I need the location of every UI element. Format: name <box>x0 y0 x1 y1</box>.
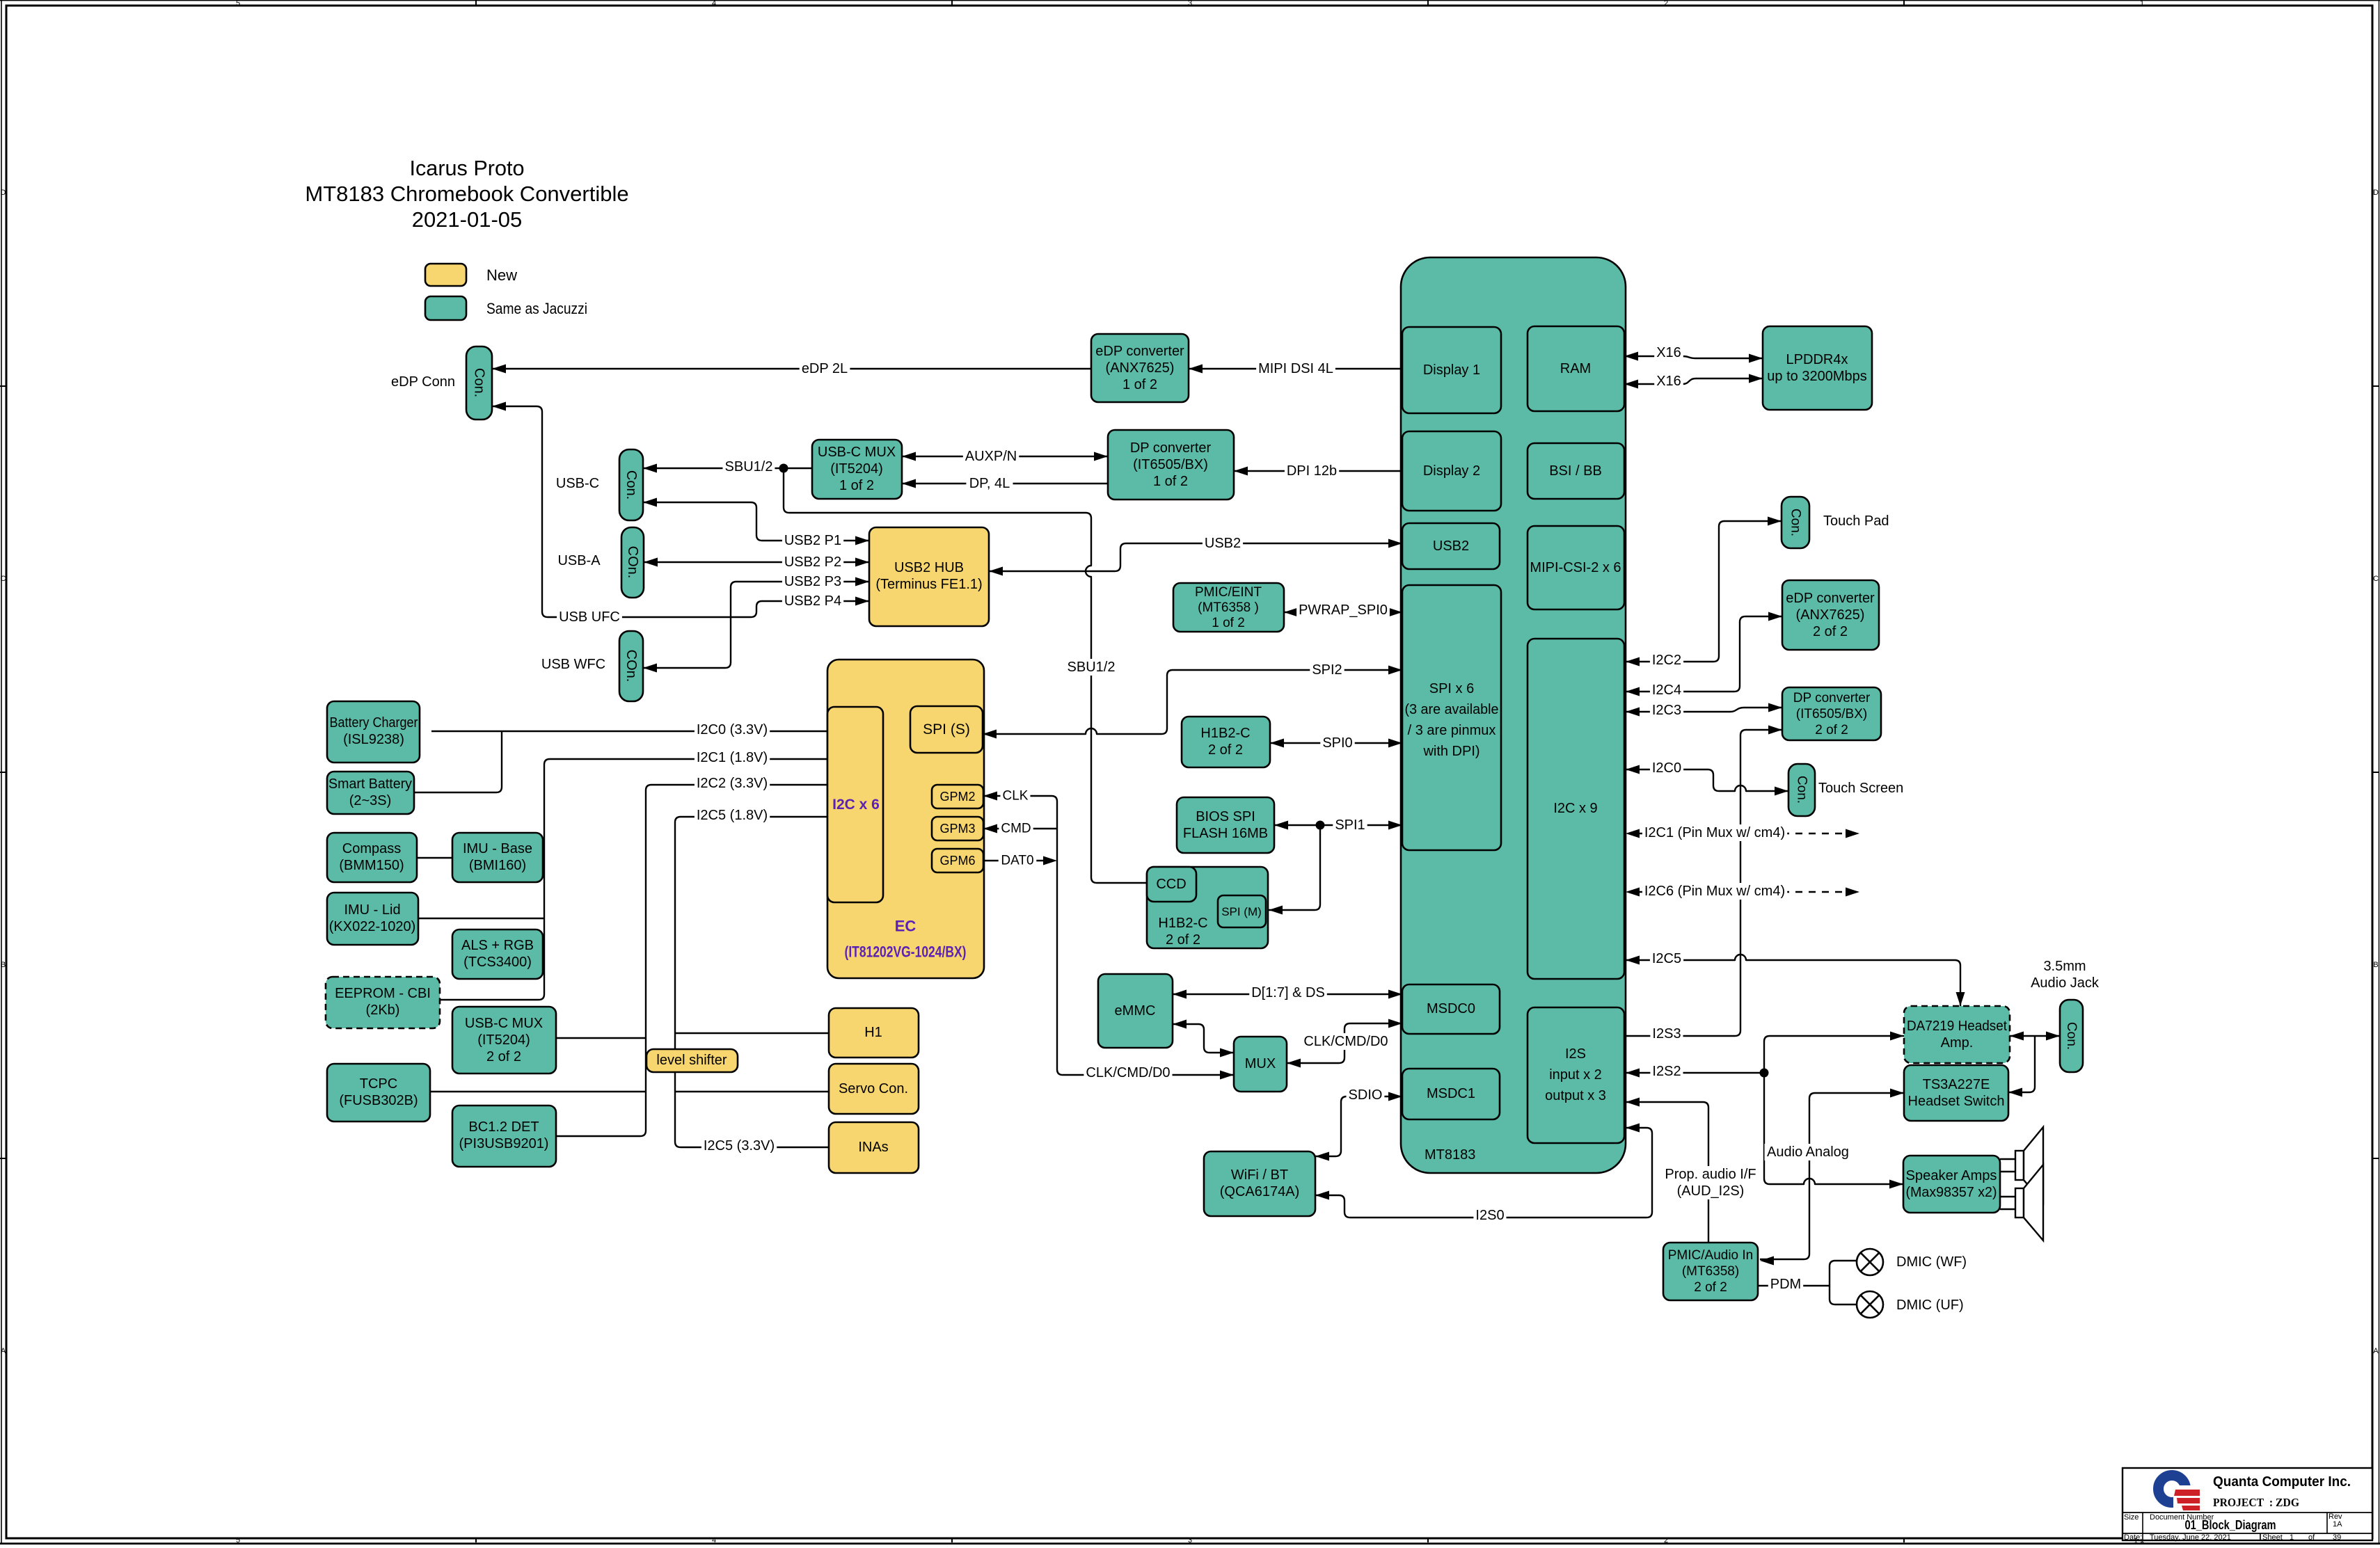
sheet outer left edge line <box>1 0 2 1545</box>
wire USB UFC / USB2 P4 <box>492 406 869 617</box>
svg-text:SBU1/2: SBU1/2 <box>1068 660 1116 675</box>
block EC GPM6 port <box>932 849 983 872</box>
arrowhead into MT8183 USB2 <box>1388 539 1402 548</box>
junction dot SBU1/2 <box>779 464 788 473</box>
net label D[1:7] & DS <box>1249 984 1327 1001</box>
speaker icon lower horn <box>2024 1165 2043 1240</box>
svg-text:USB UFC: USB UFC <box>559 609 620 625</box>
net label I2C6 (Pin Mux w/ cm4) <box>1642 883 1787 900</box>
wire SPI0 <box>1270 742 1402 744</box>
svg-text:USB2 P1: USB2 P1 <box>784 533 841 548</box>
block PMIC/EINT (MT6358) 1 of 2 <box>1173 583 1284 632</box>
arrowhead into eDP converter 1 of 2 (MIPI DSI 4L) <box>1189 365 1203 374</box>
frame bottom zone tick at x=1368 <box>951 1538 953 1542</box>
wire SPI2 / EC SPI(S) <box>983 670 1402 734</box>
block INAs <box>829 1122 919 1173</box>
wire CMD from GPM3 <box>983 828 1057 829</box>
svg-text:CLK/CMD/D0: CLK/CMD/D0 <box>1086 1065 1170 1080</box>
svg-text:SPI1: SPI1 <box>1335 817 1365 833</box>
frame bottom zone tick at x=684 <box>475 1538 477 1542</box>
arrowhead into RAM (X16 lower) <box>1624 380 1638 389</box>
wire DAT0 from GPM6 <box>983 860 1052 861</box>
wire SDIO <box>1315 1096 1402 1156</box>
wire I2C5 right to DA7219 <box>1626 955 1960 1006</box>
svg-text:I2C4: I2C4 <box>1652 683 1681 698</box>
block DP converter (IT6505/BX) 1 of 2 <box>1108 430 1234 500</box>
svg-text:I2C0 (3.3V): I2C0 (3.3V) <box>697 722 768 737</box>
svg-text:Con.: Con. <box>1795 776 1809 804</box>
arrowhead into EC SPI (S) <box>983 730 997 739</box>
net label SDIO <box>1347 1087 1385 1103</box>
svg-text:1A: 1A <box>2333 1520 2342 1529</box>
arrowhead into H1B2-C 2 of 2 (SPI0) <box>1270 739 1284 748</box>
svg-text:MT8183 Chromebook Convertible: MT8183 Chromebook Convertible <box>305 182 628 206</box>
svg-text:Sheet: Sheet <box>2262 1533 2283 1542</box>
connector USB WFC COn. <box>619 631 643 701</box>
DMIC (UF) microphone symbol <box>1857 1291 1883 1318</box>
svg-text:D[1:7] & DS: D[1:7] & DS <box>1251 985 1325 1000</box>
block Compass (BMM150) <box>327 833 417 882</box>
arrowhead into DA7219 (from jack) <box>2010 1032 2024 1041</box>
svg-text:eDP Conn: eDP Conn <box>391 374 455 390</box>
wire PWRAP_SPI0 <box>1284 612 1402 613</box>
svg-text:I2C1 (Pin Mux w/ cm4): I2C1 (Pin Mux w/ cm4) <box>1644 825 1785 840</box>
speaker icon upper driver <box>2015 1151 2024 1180</box>
arrowhead into USB WFC COn. (USB2 P3) <box>643 664 657 673</box>
svg-text:SPI2: SPI2 <box>1312 662 1342 678</box>
wire Audio Analog <box>1760 1093 1904 1259</box>
svg-text:Audio Analog: Audio Analog <box>1767 1144 1849 1160</box>
svg-text:D: D <box>2373 189 2379 197</box>
net label Prop. audio I/F line2 <box>1675 1183 1747 1199</box>
connector audio jack Con. <box>2060 1000 2083 1072</box>
arrowhead into SPI (M) <box>1269 906 1283 915</box>
block Speaker Amps (Max98357 x2) <box>1903 1156 2000 1213</box>
net label MIPI DSI 4L <box>1256 360 1335 377</box>
legend swatch Same as Jacuzzi (teal) <box>425 296 466 320</box>
Quanta logo notch <box>2173 1485 2193 1508</box>
svg-text:SPI (S): SPI (S) <box>923 721 970 737</box>
chip port I2S <box>1528 1007 1624 1143</box>
svg-text:SBU1/2: SBU1/2 <box>725 459 773 474</box>
junction dot I2S2 <box>1760 1069 1769 1078</box>
Quanta logo red stripe 3 <box>2182 1506 2200 1510</box>
wire USB2 P2 <box>644 561 869 563</box>
wire SPI1 <box>1274 824 1402 826</box>
block EC GPM2 port <box>932 785 983 808</box>
arrowhead DAT0 into bus <box>1043 856 1057 865</box>
block ALS + RGB (TCS3400) <box>452 929 543 979</box>
arrowhead into TS3A227E (Audio Analog) <box>1890 1089 1904 1098</box>
wire eMMC to MUX <box>1173 1024 1234 1053</box>
net label PWRAP_SPI0 <box>1296 602 1390 619</box>
net label I2C0 (right) <box>1650 760 1683 776</box>
svg-text:I2S3: I2S3 <box>1652 1026 1681 1042</box>
wire SBU1/2 to USB-C Con. <box>643 468 812 469</box>
svg-text:Con.: Con. <box>472 368 487 397</box>
svg-text:DAT0: DAT0 <box>1001 854 1033 868</box>
svg-text:I2C1 (1.8V): I2C1 (1.8V) <box>697 750 768 765</box>
wire MIPI DSI 4L <box>1189 368 1402 369</box>
block eDP converter (ANX7625) 2 of 2 <box>1782 580 1879 650</box>
block IMU - Base (BMI160) <box>452 833 543 882</box>
net label I2C2 (right) <box>1650 652 1683 669</box>
wire I2C2 tap to TCPC <box>430 1091 646 1092</box>
block IMU - Lid (KX022-1020) <box>327 893 418 945</box>
arrowhead into eMMC (lower) <box>1173 1020 1187 1029</box>
block EEPROM - CBI (2Kb) dashed <box>326 977 440 1028</box>
block eMMC <box>1098 974 1173 1048</box>
svg-text:I2C x 6: I2C x 6 <box>832 797 880 813</box>
arrowhead into MT8183 MSDC0 (CLK/CMD/D0) <box>1388 1019 1402 1028</box>
svg-text:I2C2: I2C2 <box>1652 653 1681 668</box>
wire I2C0 branch to Smart Battery <box>414 731 502 792</box>
wire DA7219 to audio jack Con. <box>2010 1035 2060 1037</box>
block H1B2-C 2 of 2 (upper) <box>1182 717 1270 767</box>
svg-text:3: 3 <box>1188 1536 1192 1545</box>
block level shifter <box>646 1049 738 1072</box>
arrowhead into MUX (from eMMC) <box>1220 1048 1234 1058</box>
arrowhead into USB-A COn. (USB2 P2) <box>644 558 658 567</box>
arrowhead into DA7219 (I2S2) <box>1890 1032 1904 1041</box>
wire I2S2 <box>1626 1072 1764 1074</box>
net label Audio Analog <box>1765 1144 1852 1160</box>
arrowhead into DP converter 1 of 2 (DPI 12b) <box>1234 467 1248 476</box>
title block outline <box>2123 1468 2372 1540</box>
svg-text:COn.: COn. <box>624 650 639 683</box>
svg-text:2: 2 <box>1664 1536 1668 1545</box>
arrowhead into eDP converter 2 of 2 (I2C4) <box>1768 612 1782 621</box>
svg-text:C: C <box>2373 575 2379 583</box>
block Battery Charger (ISL9238) <box>327 701 420 763</box>
wire I2S0 <box>1315 1128 1652 1218</box>
svg-text:level shifter: level shifter <box>656 1053 727 1068</box>
net label I2S3 <box>1650 1026 1683 1042</box>
arrowhead into MT8183 I2C (I2C3) <box>1626 708 1640 717</box>
dashed wire I2C6 (Pin Mux w/ cm4) <box>1637 891 1847 893</box>
net label I2C0 (3.3V) <box>695 721 770 738</box>
svg-text:Prop. audio I/F: Prop. audio I/F <box>1665 1167 1756 1182</box>
net label I2C5 (1.8V) <box>695 807 770 824</box>
wire DP 4L <box>902 483 1108 484</box>
net label USB2 P4 <box>782 593 843 609</box>
svg-text:B: B <box>1 961 6 969</box>
svg-text:A: A <box>2373 1347 2379 1355</box>
speaker icon upper horn <box>2024 1127 2043 1203</box>
arrowhead into BIOS SPI FLASH (SPI1) <box>1274 821 1288 830</box>
svg-text:4: 4 <box>712 0 716 8</box>
wire USB2 P3 <box>643 582 869 668</box>
block LPDDR4x <box>1763 326 1872 410</box>
net label I2C5 (right) <box>1650 950 1683 967</box>
net label USB2 P1 <box>782 532 843 549</box>
svg-text:SPI0: SPI0 <box>1322 735 1352 751</box>
svg-text:2021-01-05: 2021-01-05 <box>412 207 523 232</box>
block H1 <box>829 1008 919 1058</box>
arrowhead into Touch Screen Con. (I2C0) <box>1775 787 1788 796</box>
net label I2C1 (1.8V) <box>695 749 770 766</box>
svg-text:I2C0: I2C0 <box>1652 760 1681 776</box>
frame left zone tick at y=555 <box>0 385 6 387</box>
arrowhead into MUX (CLK/CMD/D0 from EC) <box>1220 1071 1234 1080</box>
arrowhead end of I2C1 pinmux <box>1846 829 1859 838</box>
svg-text:I2C5 (1.8V): I2C5 (1.8V) <box>697 808 768 823</box>
connector USB-A COn. <box>621 527 644 598</box>
arrowhead into MT8183 MSDC0 (D[1:7] & DS) <box>1388 990 1402 999</box>
svg-text:Display 1: Display 1 <box>1423 362 1480 378</box>
wire I2C1 (1.8V) chain <box>440 759 827 1000</box>
wire I2C5 (1.8V) chain <box>675 817 829 1147</box>
svg-text:4: 4 <box>712 1536 716 1545</box>
wire I2C5 tap to Servo Con. <box>675 1091 829 1092</box>
net label I2C5 (3.3V) <box>701 1138 777 1154</box>
svg-text:MIPI-CSI-2 x 6: MIPI-CSI-2 x 6 <box>1530 560 1621 575</box>
net label I2C3 (right) <box>1650 702 1683 719</box>
svg-text:3: 3 <box>1188 0 1192 8</box>
connector USB-C Con. <box>619 449 643 520</box>
arrowhead into MT8183 (PWRAP_SPI0) <box>1388 608 1402 617</box>
block DP converter (IT6505/BX) 2 of 2 <box>1782 687 1881 740</box>
svg-text:(AUD_I2S): (AUD_I2S) <box>1677 1183 1745 1199</box>
arrowhead into USB2 HUB (USB2 P4) <box>855 597 869 606</box>
svg-text:Con.: Con. <box>2064 1022 2079 1050</box>
frame left zone tick at y=1665 <box>0 1158 6 1159</box>
svg-text:CCD: CCD <box>1156 877 1186 892</box>
svg-text:5: 5 <box>236 0 240 8</box>
arrowhead into WiFi/BT (I2S0) <box>1315 1191 1329 1200</box>
block EC I2C x 6 port <box>827 707 883 902</box>
title block column divider lines <box>2143 1513 2327 1540</box>
net label I2S0 <box>1473 1207 1506 1224</box>
svg-text:Touch Pad: Touch Pad <box>1823 513 1889 529</box>
arrowhead into audio jack Con. <box>2046 1032 2060 1041</box>
wire eDP 2L <box>492 368 1091 369</box>
svg-text:SDIO: SDIO <box>1349 1087 1383 1103</box>
svg-text:INAs: INAs <box>858 1140 888 1155</box>
wire I2C2 tap to USB-C MUX 2 of 2 <box>556 1037 646 1039</box>
wire X16 upper <box>1624 356 1763 358</box>
wire D[1:7] & DS <box>1173 994 1402 995</box>
arrowhead into eDP Conn (eDP 2L) <box>492 365 506 374</box>
net label CMD <box>999 821 1033 837</box>
svg-text:USB WFC: USB WFC <box>541 657 605 672</box>
net label CLK/CMD/D0 (MUX to MSDC0) <box>1301 1033 1390 1050</box>
svg-text:COn.: COn. <box>625 546 640 579</box>
block Servo Con. <box>829 1064 919 1114</box>
svg-text:USB2 P2: USB2 P2 <box>784 554 841 570</box>
sheet outer top edge line <box>0 0 2380 1</box>
title block row divider lines <box>2123 1513 2372 1533</box>
frame right zone tick at y=1665 <box>2372 1158 2379 1159</box>
frame top zone tick at x=2052 <box>1427 0 1429 6</box>
net label CLK/CMD/D0 (EC to MUX) <box>1084 1064 1172 1081</box>
arrowhead into MUX (CLK/CMD/D0) <box>1287 1059 1301 1068</box>
arrowhead into MT8183 I2C (I2C6 pinmux) <box>1626 888 1640 897</box>
frame right zone tick at y=1110 <box>2372 772 2379 773</box>
net label USB2 P3 <box>782 573 843 590</box>
svg-text:I2S0: I2S0 <box>1475 1208 1504 1223</box>
arrowhead into MT8183 I2S (I2S0) <box>1626 1124 1640 1133</box>
svg-text:MSDC1: MSDC1 <box>1427 1086 1475 1101</box>
block TS3A227E Headset Switch <box>1904 1065 2008 1121</box>
wire I2C1 stub to IMU - Lid <box>418 918 544 919</box>
junction dot SPI1 <box>1316 821 1325 830</box>
svg-text:GPM2: GPM2 <box>939 790 975 804</box>
block SPI (M) port <box>1218 895 1266 927</box>
svg-text:eDP 2L: eDP 2L <box>802 361 848 376</box>
svg-text:USB2 P4: USB2 P4 <box>784 593 841 609</box>
net label USB2 P2 <box>782 554 843 570</box>
arrowhead into GPM2 (CLK) <box>983 792 997 801</box>
wire I2S3 to DP converter 2 of 2 <box>1625 730 1782 1036</box>
block H1B2-C 2 of 2 (lower) <box>1147 867 1268 948</box>
block BIOS SPI FLASH 16MB <box>1177 797 1274 853</box>
svg-text:39: 39 <box>2333 1533 2341 1542</box>
net label DAT0 <box>999 853 1037 869</box>
wire audio jack branch to TS3A227E <box>2008 1036 2035 1092</box>
arrowhead into MT8183 I2C (I2C4) <box>1626 687 1640 696</box>
svg-text:PDM: PDM <box>1770 1277 1801 1292</box>
arrowhead into USB2 HUB (USB2 from MT8183) <box>989 567 1003 576</box>
svg-text:AUXP/N: AUXP/N <box>965 449 1017 464</box>
svg-text:Touch Screen: Touch Screen <box>1818 781 1903 796</box>
arrowhead into MT8183 I2C (I2C1 pinmux) <box>1626 829 1640 838</box>
DMIC (WF) microphone symbol <box>1857 1249 1883 1275</box>
net label SPI0 <box>1320 735 1354 751</box>
chip port MIPI-CSI-2 x 6 <box>1528 526 1624 609</box>
net label DPI 12b <box>1285 463 1339 479</box>
net label USB2 <box>1203 535 1243 552</box>
net label USB UFC <box>557 609 622 625</box>
svg-text:C: C <box>1 575 6 583</box>
svg-text:GPM6: GPM6 <box>939 854 975 868</box>
svg-text:DMIC (WF): DMIC (WF) <box>1896 1254 1967 1270</box>
chip port I2C x 9 <box>1528 639 1624 979</box>
svg-text:USB-C: USB-C <box>556 476 599 491</box>
arrowhead into DP converter 1 of 2 (AUXP/N) <box>1094 452 1108 461</box>
sheet outer bottom thick edge line <box>0 1542 2380 1545</box>
net label PDM <box>1768 1276 1803 1293</box>
svg-text:SPI (M): SPI (M) <box>1221 905 1262 918</box>
chip port Display 2 <box>1402 431 1501 511</box>
arrowhead into MT8183 MSDC1 (SDIO) <box>1388 1092 1402 1101</box>
svg-text:MIPI DSI 4L: MIPI DSI 4L <box>1258 361 1333 376</box>
net label SBU1/2 (left) <box>723 458 775 475</box>
arrowhead into USB-C MUX (DP 4L) <box>902 479 916 488</box>
block WiFi / BT (QCA6174A) <box>1204 1151 1315 1216</box>
arrowhead into eMMC (D[1:7] & DS) <box>1173 990 1187 999</box>
block EC (IT81202VG-1024/BX) <box>827 660 984 978</box>
block MUX <box>1234 1037 1287 1092</box>
svg-text:01_Block_Diagram: 01_Block_Diagram <box>2185 1518 2276 1532</box>
Quanta logo red stripe 1 <box>2174 1490 2200 1496</box>
arrowhead into MT8183 I2C (I2C2) <box>1626 657 1640 667</box>
wire USB2 P1 <box>643 502 869 541</box>
arrowhead into WiFi/BT (SDIO) <box>1315 1152 1329 1161</box>
chip port USB2 <box>1402 523 1500 569</box>
arrowhead into MT8183 I2S (I2S2) <box>1626 1069 1640 1078</box>
block DA7219 Headset Amp. dashed <box>1904 1006 2010 1063</box>
net label SBU1/2 (vertical) <box>1065 659 1118 676</box>
block USB2 HUB (Terminus FE1.1) <box>869 527 989 626</box>
wire I2C0 right to Touch Screen <box>1626 769 1788 791</box>
wire I2C3 right to DP converter 2 of 2 <box>1626 708 1782 712</box>
svg-text:X16: X16 <box>1656 374 1681 389</box>
svg-text:Quanta Computer Inc.: Quanta Computer Inc. <box>2213 1474 2351 1490</box>
speaker icon stub wires <box>2000 1159 2015 1209</box>
wire I2C5 tap to H1 <box>675 1032 829 1034</box>
chip port MSDC0 <box>1402 984 1500 1034</box>
svg-text:eMMC: eMMC <box>1115 1003 1156 1019</box>
svg-text:Tuesday, June 22, 2021: Tuesday, June 22, 2021 <box>2150 1533 2231 1542</box>
arrowhead into Speaker Amps (I2S2) <box>1889 1180 1903 1189</box>
wire I2S2 branch to Speaker Amps <box>1764 1073 1903 1184</box>
svg-text:Same as Jacuzzi: Same as Jacuzzi <box>486 300 587 317</box>
connector Touch Screen Con. <box>1788 764 1815 816</box>
arrowhead into eDP Conn (from USB UFC) <box>492 402 506 411</box>
speaker icon lower driver <box>2015 1188 2024 1218</box>
frame top zone tick at x=2736 <box>1903 0 1905 6</box>
block USB-C MUX (IT5204) 2 of 2 <box>452 1007 556 1074</box>
arrowhead into MT8183 (SPI2) <box>1388 666 1402 675</box>
wire I2C2 (3.3V) chain <box>556 785 827 1136</box>
svg-text:New: New <box>486 266 517 284</box>
svg-text:MUX: MUX <box>1245 1056 1276 1071</box>
net label DP 4L <box>966 475 1013 492</box>
dashed wire I2C1 (Pin Mux w/ cm4) <box>1637 833 1847 834</box>
block EC SPI (S) port <box>910 706 983 753</box>
net label X16 upper <box>1654 344 1683 361</box>
arrowhead into USB-C Con. (SBU1/2) <box>643 464 657 473</box>
wire MUX to MSDC0 CLK/CMD/D0 <box>1287 1023 1402 1063</box>
frame top zone tick at x=1368 <box>951 0 953 6</box>
wire PDM <box>1758 1285 1830 1286</box>
wire SBU1/2 branch to CCD <box>784 468 1147 883</box>
chip port Display 1 <box>1402 327 1501 413</box>
arrowhead into PMIC/Audio In (Audio Analog) <box>1760 1256 1774 1266</box>
svg-text:MSDC0: MSDC0 <box>1427 1001 1475 1016</box>
svg-text:Size: Size <box>2124 1513 2139 1522</box>
svg-text:1: 1 <box>2134 1537 2138 1545</box>
svg-text:PWRAP_SPI0: PWRAP_SPI0 <box>1299 603 1388 618</box>
svg-text:PROJECT : ZDG: PROJECT : ZDG <box>2213 1496 2299 1509</box>
net label I2S2 <box>1650 1063 1683 1080</box>
arrowhead end of I2C6 pinmux <box>1846 888 1859 897</box>
svg-text:USB2: USB2 <box>1205 536 1241 551</box>
svg-text:X16: X16 <box>1656 345 1681 360</box>
svg-text:5: 5 <box>236 1536 240 1545</box>
arrowhead into USB2 HUB (USB2 P3) <box>855 577 869 587</box>
svg-text:Con.: Con. <box>1788 509 1803 536</box>
net label X16 lower <box>1654 373 1683 390</box>
wire SPI1 branch to SPI (M) <box>1269 825 1320 910</box>
block eDP converter (ANX7625) 1 of 2 <box>1091 334 1189 402</box>
arrowhead into Touch Pad Con. (I2C2) <box>1768 517 1782 526</box>
wire USB2 hub to MT8183 <box>989 543 1402 571</box>
net label I2C4 (right) <box>1650 682 1683 699</box>
arrowhead into USB-C MUX (AUXP/N) <box>902 452 916 461</box>
svg-text:2: 2 <box>1664 0 1668 8</box>
wire Compass to IMU - Base link <box>417 857 452 859</box>
svg-text:H1: H1 <box>864 1025 882 1040</box>
arrowhead into PMIC/EINT (PWRAP_SPI0) <box>1284 608 1298 617</box>
svg-text:I2C2 (3.3V): I2C2 (3.3V) <box>697 776 768 791</box>
arrowhead into LPDDR4x (X16 lower) <box>1749 374 1763 383</box>
block EC GPM3 port <box>932 817 983 840</box>
frame bottom zone tick at x=2736 <box>1903 1538 1905 1542</box>
block BC1.2 DET (PI3USB9201) <box>452 1106 556 1167</box>
svg-text:Servo Con.: Servo Con. <box>839 1081 908 1096</box>
